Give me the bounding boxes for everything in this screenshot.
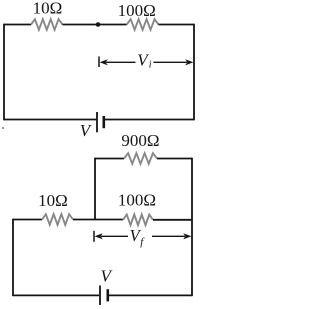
resistor R3 900ohm: [124, 153, 157, 164]
Vf annotation right arrowhead: [183, 233, 191, 239]
wire top-right segment: [159, 24, 195, 26]
Vf annotation left arrowhead: [95, 233, 103, 239]
svg-text:100Ω: 100Ω: [118, 1, 156, 20]
svg-text:10Ω: 10Ω: [33, 0, 63, 18]
resistor R2 100ohm (top circuit): [127, 19, 159, 30]
wire middle branch right segment: [153, 219, 192, 221]
battery V (top circuit) short plate: [103, 116, 106, 128]
battery V (bottom circuit) short plate: [107, 289, 110, 301]
wire left side (bottom circuit): [12, 219, 14, 296]
wire bottom-right segment (top circuit): [105, 119, 194, 121]
Vi annotation left tick: [98, 57, 100, 68]
wire left side (top circuit): [3, 24, 5, 121]
wire top-middle segment: [63, 24, 127, 26]
Vf annotation line right part: [152, 235, 185, 237]
resistor R4 10ohm (bottom circuit): [42, 214, 73, 225]
Vi annotation right arrowhead: [185, 59, 193, 65]
wire parallel-branch top-left segment: [95, 158, 124, 160]
Vi annotation line left part: [106, 61, 136, 63]
svg-text:900Ω: 900Ω: [121, 131, 159, 150]
wire parallel-branch left vertical: [94, 158, 96, 220]
Vi annotation left arrowhead: [100, 59, 108, 65]
node junction dot: [96, 22, 101, 27]
wire middle branch left segment: [13, 219, 42, 221]
wire bottom-left segment (bottom circuit): [13, 294, 99, 296]
resistor R1 10ohm (top circuit): [31, 19, 63, 30]
svg-text:i: i: [149, 60, 152, 71]
Vf annotation left tick: [93, 231, 95, 242]
Vf annotation line left part: [101, 235, 128, 237]
Vi annotation line right part: [154, 61, 188, 63]
resistor R5 100ohm (bottom circuit): [123, 215, 153, 226]
battery V (top circuit) long plate: [96, 112, 98, 132]
wire bottom-left segment (top circuit): [4, 119, 96, 121]
wire right side (top circuit): [193, 24, 195, 121]
wire parallel-branch top-right segment: [157, 158, 192, 160]
battery V (bottom circuit) long plate: [99, 286, 101, 306]
wire bottom-right segment (bottom circuit): [109, 294, 192, 296]
stray speck (scan artifact): [2, 127, 4, 129]
svg-text:10Ω: 10Ω: [38, 191, 68, 210]
wire right side (bottom circuit): [191, 158, 193, 296]
svg-text:100Ω: 100Ω: [118, 190, 156, 209]
wire top-left segment: [4, 24, 31, 26]
wire middle branch center segment: [73, 219, 123, 221]
